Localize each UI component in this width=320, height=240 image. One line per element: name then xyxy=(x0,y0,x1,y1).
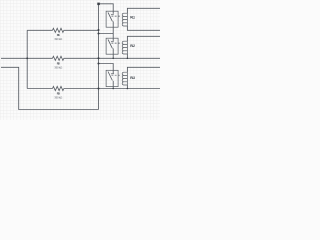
relay RL2 contact bar xyxy=(111,41,114,43)
wire left vertical xyxy=(26,30,28,88)
svg-text:RL2: RL2 xyxy=(130,44,135,48)
svg-text:390 kΩ: 390 kΩ xyxy=(54,37,63,41)
wire coil1 top to edge xyxy=(127,8,160,13)
relay RL3 coil xyxy=(122,72,127,85)
relay RL1 switch blade xyxy=(108,12,112,21)
relay RL2 switch blade xyxy=(108,39,112,48)
relay RL3 switch blade xyxy=(108,72,112,81)
node relay3 pin/row3 xyxy=(112,88,114,90)
svg-text:RL1: RL1 xyxy=(130,16,135,20)
node rail/row1 xyxy=(97,29,99,31)
wire relay1 top link xyxy=(99,4,114,14)
relay RL3 linkage dashes xyxy=(111,74,121,76)
resistor R1 xyxy=(53,28,64,32)
wire vertical rail xyxy=(98,4,100,110)
relay RL1 linkage dashes xyxy=(111,15,121,17)
wire coil1 bottom to edge xyxy=(127,26,160,30)
node rail/relay3 top xyxy=(97,62,99,64)
node left vertical/row2 xyxy=(26,57,28,59)
relay RL1 switch box xyxy=(106,11,118,27)
relay RL3 contact bar xyxy=(111,73,114,75)
node rail/row2 xyxy=(97,57,99,59)
relay RL2 switch box xyxy=(106,38,118,54)
node rail/row3 xyxy=(97,87,99,89)
wire B bottom loop xyxy=(1,67,99,109)
node coil3 pin/row3 xyxy=(127,88,129,90)
svg-text:390 kΩ: 390 kΩ xyxy=(54,96,63,100)
wire coil3 top to edge xyxy=(127,67,160,72)
relay RL1 contact bar xyxy=(111,14,114,16)
wire coil2 bottom pin xyxy=(126,54,128,58)
svg-text:RL3: RL3 xyxy=(130,76,135,80)
svg-text:390 kΩ: 390 kΩ xyxy=(54,66,63,70)
wire relay3 top link xyxy=(99,64,114,74)
background grid xyxy=(0,0,160,120)
relay RL2 linkage dashes xyxy=(111,42,121,44)
resistor R3 xyxy=(53,86,64,90)
wire row1 xyxy=(27,29,98,31)
wire coil3 bottom pin xyxy=(126,85,128,89)
node coil2 pin/row2 xyxy=(127,58,129,60)
node rail/relay1 bottom xyxy=(97,32,99,34)
resistor R2 xyxy=(53,56,64,60)
wire relay2 bottom pin xyxy=(112,48,114,58)
node relay2 pin/row2 xyxy=(112,58,114,60)
wire relay1 bottom / relay2 top xyxy=(99,21,114,41)
relay RL1 coil xyxy=(122,13,127,26)
relay RL3 switch box xyxy=(106,70,118,86)
wire row3 to right edge xyxy=(27,88,160,90)
wire relay3 bottom pin xyxy=(112,81,114,89)
wire coil2 top to edge xyxy=(127,36,160,41)
wire row2 left to right edge xyxy=(1,57,160,59)
terminal square top of rail xyxy=(97,3,100,6)
relay RL2 coil xyxy=(122,41,127,54)
